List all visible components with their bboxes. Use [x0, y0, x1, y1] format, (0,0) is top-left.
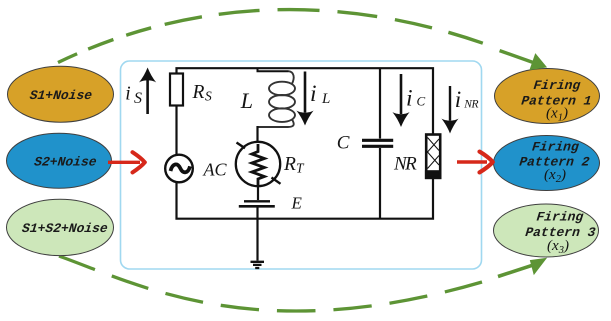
svg-text:R: R [192, 82, 205, 103]
wire top rail [177, 68, 434, 134]
AC sine symbol [171, 164, 191, 172]
wire RS to AC [175, 106, 177, 156]
ellipse S1+S2+Noise [7, 199, 114, 255]
svg-text:Firing: Firing [531, 139, 579, 154]
svg-text:S1+S2+Noise: S1+S2+Noise [21, 221, 108, 236]
dashed feedback arc bottom [59, 256, 482, 311]
svg-text:S1+Noise: S1+Noise [29, 88, 93, 103]
svg-text:S2+Noise: S2+Noise [33, 154, 97, 169]
arrowhead top right [529, 53, 547, 70]
svg-text:NR: NR [463, 99, 478, 111]
wire battery to ground [256, 208, 258, 261]
capacitor C top plate [362, 139, 393, 142]
svg-text:i: i [406, 86, 413, 112]
svg-text:R: R [283, 154, 296, 175]
AC source circle [165, 155, 193, 183]
current arrow iNR [449, 86, 451, 121]
battery E top plate [244, 200, 270, 202]
svg-text:Firing: Firing [536, 209, 584, 224]
ellipse S2+Noise [7, 133, 112, 188]
arc bottom last dash [498, 264, 536, 276]
capacitor C bottom plate [362, 145, 393, 148]
ellipse S1+Noise [8, 66, 114, 122]
current arrow iS [146, 80, 149, 114]
svg-text:AC: AC [203, 159, 228, 179]
wire top rail to capacitor C [379, 68, 381, 138]
svg-text:L: L [321, 91, 330, 107]
ellipse Firing Pattern 2 [494, 136, 600, 191]
red output arrow [457, 160, 487, 164]
svg-text:E: E [291, 194, 303, 213]
RT diagonal ticks [237, 143, 281, 184]
svg-text:S: S [205, 89, 212, 104]
wire L branch drop [258, 68, 289, 71]
svg-text:i: i [310, 81, 317, 107]
svg-text:C: C [417, 94, 426, 109]
resistor RS [170, 74, 183, 106]
ellipse Firing Pattern 3 [494, 204, 599, 257]
arc top last dash [500, 51, 534, 63]
svg-text:i: i [455, 87, 461, 112]
svg-text:NR: NR [393, 154, 417, 175]
ellipse Firing Pattern 1 [495, 69, 600, 124]
current arrow iC [400, 74, 403, 114]
dashed feedback arc top [58, 10, 483, 63]
battery E bottom plate [239, 205, 275, 208]
svg-text:C: C [337, 133, 350, 154]
svg-text:(x3): (x3) [547, 238, 569, 256]
thermistor RT circle [236, 142, 280, 186]
nonlinear resistor NR body [426, 135, 440, 178]
arrowhead bottom right [530, 258, 547, 275]
current arrow iL [304, 72, 307, 113]
NR bottom band [426, 172, 440, 178]
svg-text:(x1): (x1) [546, 106, 568, 124]
wire L to RT [256, 126, 258, 143]
svg-text:Firing: Firing [533, 78, 581, 93]
svg-text:S: S [134, 90, 142, 107]
wire bottom rail [177, 178, 434, 219]
RT zigzag [252, 144, 265, 186]
svg-text:L: L [240, 88, 253, 113]
svg-text:(x2): (x2) [544, 167, 566, 185]
inductor L coil [258, 71, 296, 127]
ground symbol [251, 262, 265, 268]
wire RT to battery [257, 186, 259, 200]
red input arrow [108, 161, 140, 164]
svg-text:Pattern 3: Pattern 3 [525, 225, 597, 240]
svg-text:i: i [125, 83, 130, 104]
circuit box [121, 61, 482, 269]
wire capacitor C to bottom rail [379, 148, 381, 219]
NR hatch pattern [428, 138, 440, 169]
